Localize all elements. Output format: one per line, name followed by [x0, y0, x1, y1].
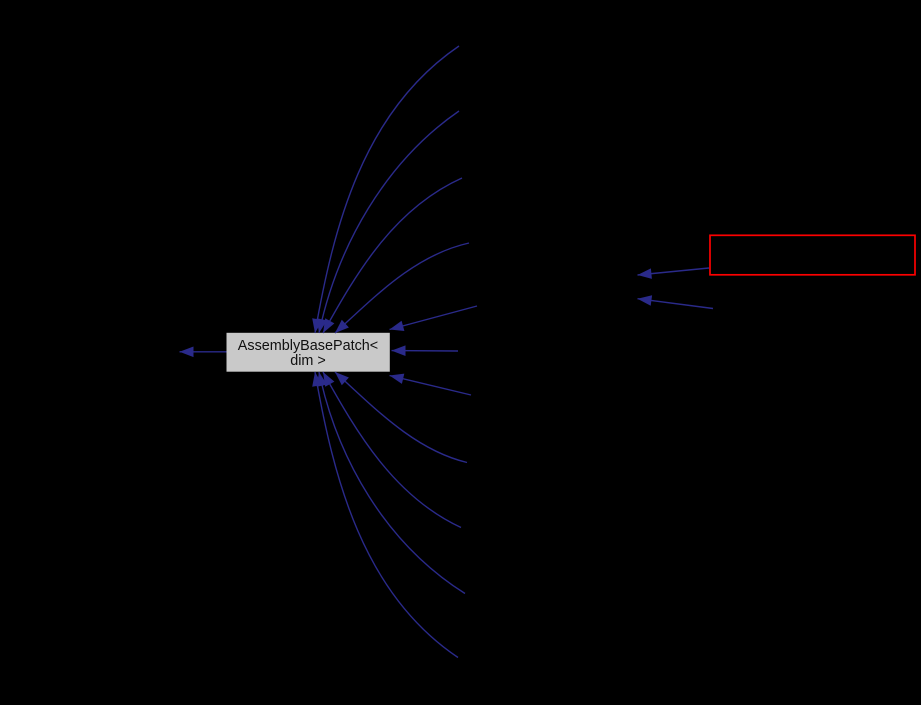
central node AssemblyBasePatch< dim > [227, 333, 390, 372]
edge from Scratch data node (top 1) [312, 46, 459, 333]
truncated node (red) [710, 235, 915, 274]
edge from Scratch data node (bottom 2) [317, 372, 465, 594]
edge from Scratch data node (bottom 3) [323, 372, 461, 528]
edge from node (horizontal right) [392, 345, 459, 356]
svg-text:dim >: dim > [290, 353, 326, 369]
edge from node (upper right diagonal) [390, 306, 478, 331]
svg-text:AssemblyBasePatch<: AssemblyBasePatch< [238, 338, 378, 354]
edge from node (lower right diagonal) [390, 374, 472, 395]
edge from Scratch data node (top 4) [335, 243, 469, 333]
edge from Scratch data node (bottom 1) [312, 372, 458, 658]
edge from lower node to middle node [638, 295, 714, 308]
edge from Scratch data node (top 2) [317, 111, 459, 333]
edge from Scratch data node (top 3) [323, 178, 462, 333]
edge from Scratch data node (bottom 4) [335, 372, 467, 463]
edge from red node to middle node [638, 268, 710, 279]
edge to left node [180, 347, 227, 358]
